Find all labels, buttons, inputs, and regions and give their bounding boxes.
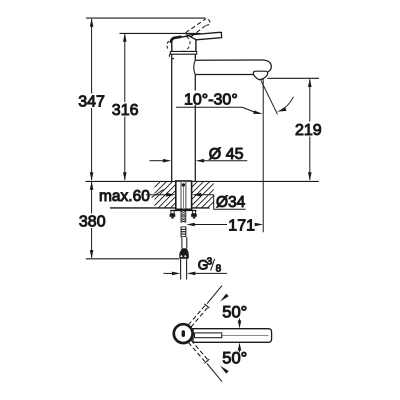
svg-text:8: 8 <box>216 263 222 274</box>
dimension 347 line <box>91 19 93 180</box>
svg-text:Ø 45: Ø 45 <box>209 146 244 163</box>
dashed interior tick <box>182 50 185 52</box>
dashed raised lever line lower <box>191 25 207 37</box>
spout bottom edge <box>195 74 253 76</box>
dashed raised lever line upper <box>186 21 204 33</box>
stream angle arc arrow <box>282 97 294 110</box>
svg-text:10°-30°: 10°-30° <box>184 91 238 108</box>
body fillet arc at spout junction <box>194 60 196 74</box>
water stream slant line <box>261 80 278 114</box>
faucet body right edge upper <box>194 53 196 60</box>
lever handle (rest position) <box>187 32 221 40</box>
dimension 219 line <box>309 79 311 180</box>
lever 50 up end cap <box>204 304 209 308</box>
braided hose section <box>181 226 186 237</box>
dashed cartridge interior arc <box>187 37 190 50</box>
handle top view <box>193 329 272 343</box>
dashed lowered lever curl <box>169 54 174 59</box>
aerator outlet <box>253 71 267 79</box>
lever 50 down end cap <box>204 359 209 363</box>
dashed lowered lever tip <box>167 41 169 50</box>
svg-text:max.60: max.60 <box>99 188 150 205</box>
counter hatching left <box>155 181 176 207</box>
dashed lever 50 up line b <box>191 307 208 327</box>
dashed lever 50 up line a <box>188 305 205 325</box>
dimension 316 line <box>124 34 126 180</box>
dimension 380 line <box>91 182 93 258</box>
svg-text:171: 171 <box>228 217 255 234</box>
cartridge head <box>172 35 196 52</box>
body circle top view <box>174 324 193 343</box>
dimension 171 <box>186 223 195 227</box>
label 219 <box>294 122 324 137</box>
center dot <box>182 183 185 186</box>
extension line 316 ref <box>120 32 201 34</box>
svg-text:Ø34: Ø34 <box>216 194 246 211</box>
right screw <box>192 211 195 214</box>
faucet body left edge <box>171 54 173 181</box>
label D34 <box>215 195 246 208</box>
dimension G3/8 arrows <box>164 272 173 274</box>
svg-text:347: 347 <box>78 94 105 111</box>
head heavy top-left corner <box>171 37 182 43</box>
hose tube <box>181 237 183 248</box>
extension line top (347 ref) <box>86 17 206 19</box>
380 bottom reference line <box>86 258 180 260</box>
mounting shank <box>176 181 192 209</box>
svg-text:50°: 50° <box>222 349 247 367</box>
threaded rod <box>181 209 186 222</box>
extension line 219 ref <box>268 77 320 79</box>
arrow onto handle top edge <box>239 319 241 321</box>
center slot <box>182 330 185 337</box>
dimension D34 arrows onto shank <box>146 194 167 196</box>
dimension D45 arrows <box>150 160 165 162</box>
50 up extension line <box>207 286 222 304</box>
faucet body right edge lower <box>194 75 196 182</box>
dashed lever 50 down line b <box>191 340 208 360</box>
dashed lever 50 down line a <box>188 342 205 362</box>
label 316 <box>110 102 139 117</box>
counter hatching right <box>192 181 214 207</box>
50 down arc arrowhead <box>220 366 229 374</box>
spout top edge <box>195 60 271 72</box>
label 380 <box>78 214 106 229</box>
svg-text:316: 316 <box>112 102 139 119</box>
countertop top line <box>86 180 319 182</box>
svg-text:219: 219 <box>295 122 322 139</box>
svg-text:50°: 50° <box>222 303 247 321</box>
water stream vertical reference line <box>262 79 264 233</box>
hose end fitting <box>179 253 189 259</box>
step outline for D34 label <box>209 195 246 210</box>
taper to fitting <box>179 248 188 253</box>
leader max.60 <box>152 190 164 198</box>
svg-text:380: 380 <box>79 214 106 231</box>
head skirt <box>170 52 196 55</box>
lower connection tube <box>180 259 182 280</box>
leader line 10-30 <box>176 107 254 112</box>
50 up arc arrowhead <box>220 294 229 302</box>
supply pipes in shank <box>180 182 182 209</box>
arrow onto handle bottom edge <box>239 350 241 352</box>
mounting bracket line <box>170 210 196 212</box>
countertop bottom line <box>110 207 210 209</box>
handle centerline <box>222 335 269 337</box>
left screw <box>171 211 174 214</box>
handle neck inner <box>195 333 222 338</box>
dashed raised lever tip hook <box>203 19 210 25</box>
label 10-30 deg <box>181 91 240 106</box>
label 347 <box>77 94 107 109</box>
svg-text:3: 3 <box>207 256 213 267</box>
50 down extension line <box>207 364 222 382</box>
